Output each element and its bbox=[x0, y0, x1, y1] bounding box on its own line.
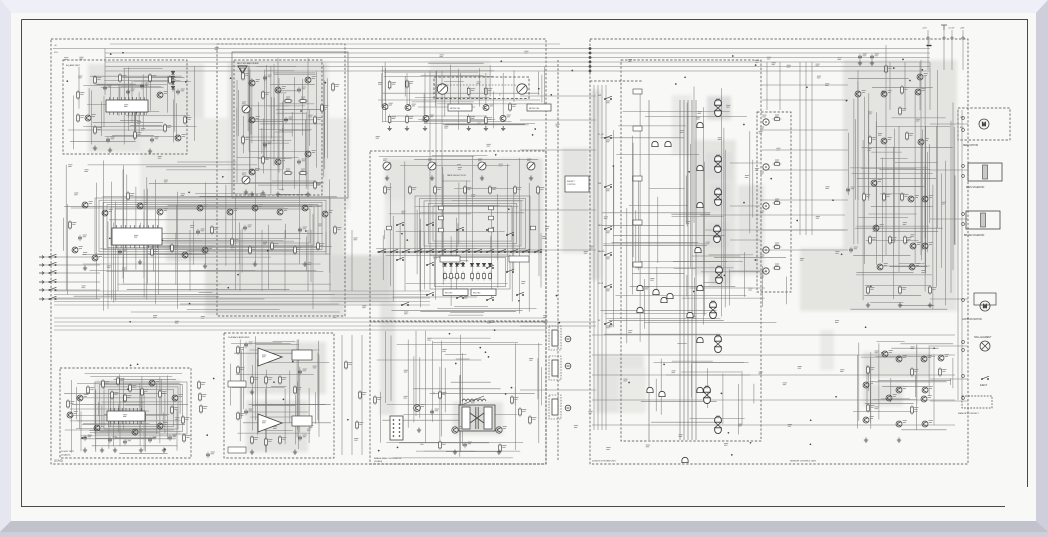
wire bbox=[390, 336, 392, 401]
svg-text:+13.5V: +13.5V bbox=[948, 28, 955, 30]
label R60 bbox=[387, 188, 391, 190]
wire bbox=[127, 289, 290, 291]
wire bbox=[871, 151, 902, 153]
wire bbox=[537, 358, 539, 399]
junction node bbox=[882, 91, 884, 93]
label potentiometer REC CAL 2 bbox=[242, 173, 246, 175]
wire bbox=[870, 352, 872, 429]
wire bbox=[380, 392, 382, 443]
junction node bbox=[806, 86, 808, 88]
resistor R47 bbox=[314, 180, 317, 190]
tape select matrix loop bbox=[415, 196, 530, 251]
wire bbox=[613, 167, 615, 229]
wire bbox=[442, 180, 471, 182]
wire bbox=[255, 403, 325, 405]
wire bbox=[101, 401, 145, 403]
wire bbox=[71, 207, 284, 209]
wire bbox=[95, 391, 97, 452]
flip-flop shading bbox=[707, 222, 729, 248]
label R85 bbox=[240, 414, 244, 416]
label TR816 bbox=[929, 387, 933, 389]
wire bbox=[104, 414, 169, 416]
power wire 2 bbox=[951, 30, 953, 70]
label TR825 bbox=[929, 421, 933, 423]
shaded panel bbox=[618, 368, 646, 412]
ground bbox=[430, 176, 434, 181]
label R22 bbox=[154, 250, 158, 252]
stray label bbox=[82, 286, 86, 288]
wire bbox=[264, 430, 292, 432]
capacitor C22 bbox=[196, 229, 200, 235]
wire bbox=[273, 98, 275, 130]
label TR39 bbox=[234, 209, 238, 211]
resistor R43 bbox=[262, 90, 265, 100]
wire bbox=[878, 380, 951, 382]
resistor R89 bbox=[294, 385, 297, 395]
oscillator indicator 4 bbox=[763, 268, 769, 274]
interconnect wire bbox=[762, 229, 848, 231]
junction node bbox=[273, 381, 275, 383]
flip-flop FF4 bbox=[716, 267, 723, 284]
wire bbox=[105, 135, 177, 137]
wire bbox=[102, 256, 271, 258]
wire bbox=[950, 378, 952, 385]
label mode switch EJ bbox=[606, 326, 610, 328]
transistor TR810 bbox=[910, 243, 916, 249]
flip-flop shading bbox=[709, 264, 731, 286]
wire bbox=[409, 82, 411, 105]
wire bbox=[314, 392, 316, 424]
svg-text:RECORD: RECORD bbox=[445, 293, 453, 295]
stray label bbox=[604, 217, 608, 219]
svg-text:EJ: EJ bbox=[598, 320, 600, 322]
terminal circle bbox=[962, 341, 965, 344]
label flip-flop FF7 bbox=[705, 386, 709, 388]
wire bbox=[193, 66, 195, 141]
wire bbox=[953, 127, 955, 245]
label TR820 bbox=[945, 355, 949, 357]
bus wire 5 bbox=[105, 66, 930, 68]
stray label bbox=[672, 371, 676, 373]
switch S9 bbox=[506, 269, 514, 272]
wire bbox=[459, 375, 461, 408]
resistor R1011 bbox=[867, 285, 870, 295]
frame rule right bbox=[1027, 20, 1029, 488]
wire bbox=[445, 354, 467, 356]
stray label bbox=[64, 58, 68, 60]
junction node bbox=[870, 286, 872, 288]
stray label bbox=[609, 325, 613, 327]
junction node bbox=[485, 351, 487, 353]
label R90 bbox=[442, 393, 446, 395]
input wire 2 bbox=[44, 264, 100, 266]
svg-text:-26V: -26V bbox=[960, 28, 965, 30]
capacitor C75 bbox=[206, 452, 210, 458]
resistor R26 bbox=[249, 245, 252, 255]
test pin bbox=[399, 427, 401, 429]
gate output wire bbox=[730, 239, 760, 241]
wire bbox=[141, 401, 143, 419]
wire bbox=[232, 387, 285, 389]
wire bbox=[256, 344, 299, 346]
wire bbox=[692, 362, 748, 364]
power rail wire bbox=[857, 70, 859, 200]
capacitor C92 bbox=[463, 442, 467, 448]
block boundary: record amp outer bbox=[217, 44, 345, 316]
playback matrix loop bbox=[103, 202, 322, 249]
label R25 bbox=[234, 240, 238, 242]
junction node bbox=[378, 450, 380, 452]
wire bbox=[145, 83, 147, 116]
potentiometer VR4 bbox=[527, 162, 535, 170]
label C103 bbox=[854, 247, 858, 249]
tape head H1 coil bbox=[552, 330, 558, 346]
capacitor C71 bbox=[108, 437, 112, 443]
wire bbox=[456, 358, 470, 360]
label R87 bbox=[268, 440, 272, 442]
junction node bbox=[841, 253, 843, 255]
stray label bbox=[798, 366, 802, 368]
wire bbox=[513, 192, 515, 271]
junction node bbox=[488, 356, 490, 358]
label R95 bbox=[442, 443, 446, 445]
wire bbox=[126, 175, 128, 272]
wire bbox=[412, 101, 474, 103]
value label bbox=[760, 127, 764, 129]
junction node bbox=[571, 70, 573, 72]
wire bbox=[168, 205, 323, 207]
transistor TR74 bbox=[172, 395, 178, 401]
wire bbox=[891, 347, 938, 349]
resistor R104 bbox=[906, 131, 909, 141]
logic vertical bus wire bbox=[695, 100, 697, 440]
wire bbox=[90, 376, 172, 378]
label C20 bbox=[83, 235, 87, 237]
wire bbox=[538, 72, 540, 96]
junction node bbox=[755, 64, 757, 66]
label R17 bbox=[187, 118, 191, 120]
wire bbox=[950, 121, 952, 293]
input wire 1 bbox=[44, 256, 100, 258]
label R24 bbox=[214, 228, 218, 230]
wire bbox=[167, 77, 169, 113]
logic gate G16 bbox=[667, 293, 673, 298]
label C70 bbox=[88, 435, 92, 437]
svg-text:TAPE SELECTION: TAPE SELECTION bbox=[447, 174, 466, 177]
wire bbox=[686, 103, 688, 227]
junction node bbox=[164, 448, 166, 450]
logic gate G6 bbox=[697, 285, 703, 290]
resistor R6b3 bbox=[462, 272, 465, 281]
wire bbox=[876, 340, 904, 342]
stray label bbox=[169, 246, 173, 248]
ground bbox=[93, 146, 97, 151]
resistor R1014 bbox=[867, 365, 870, 375]
stray label bbox=[215, 48, 219, 50]
resistor R15 bbox=[134, 130, 137, 140]
tape select matrix loop bbox=[429, 203, 517, 243]
resistor R88 bbox=[279, 435, 282, 445]
osc box 2 bbox=[292, 416, 312, 426]
meter dashed wire bbox=[434, 84, 517, 86]
label C10 bbox=[108, 85, 112, 87]
label TR63 BC237B bbox=[421, 405, 425, 407]
stray label bbox=[584, 251, 588, 253]
wire bbox=[850, 308, 947, 310]
wire bbox=[77, 383, 180, 385]
switch S13 bbox=[516, 292, 524, 295]
junction node bbox=[921, 69, 923, 71]
wire bbox=[437, 103, 532, 105]
wire bbox=[457, 223, 459, 247]
wire bbox=[385, 68, 387, 122]
resistor R100 bbox=[885, 64, 888, 74]
wire bbox=[112, 392, 114, 446]
test pin bbox=[393, 435, 395, 437]
power ground symbol bbox=[941, 25, 947, 30]
resistor R82 bbox=[251, 375, 254, 385]
label R107 bbox=[904, 195, 908, 197]
wire bbox=[147, 246, 332, 248]
wire bbox=[135, 187, 137, 270]
wire bbox=[419, 230, 421, 291]
wire bbox=[639, 92, 641, 342]
junction node bbox=[835, 396, 837, 398]
capstan motor box bbox=[974, 293, 996, 305]
wire bbox=[153, 225, 155, 272]
bus drop wire bbox=[904, 62, 906, 110]
resistor R111 bbox=[773, 163, 782, 166]
ground bbox=[897, 438, 901, 443]
wire bbox=[247, 67, 249, 132]
resistor R12b bbox=[356, 420, 359, 430]
logic vertical bus wire bbox=[683, 100, 685, 440]
junction node bbox=[518, 300, 520, 302]
wire bbox=[71, 380, 73, 453]
wire bbox=[672, 216, 724, 218]
sensor interconnect wire bbox=[592, 374, 955, 376]
VU meter left bbox=[437, 84, 447, 94]
stray label bbox=[489, 264, 493, 266]
transistor TR80 bbox=[917, 74, 923, 80]
wire bbox=[257, 102, 259, 170]
stray label bbox=[903, 223, 907, 225]
label C81 bbox=[249, 409, 253, 411]
transistor TR33 bbox=[157, 209, 163, 215]
wire bbox=[867, 373, 869, 391]
terminal circle bbox=[962, 213, 965, 216]
wire bbox=[82, 424, 185, 426]
wire bbox=[451, 260, 469, 262]
wire bbox=[499, 94, 501, 96]
wire bbox=[540, 367, 542, 405]
wire bbox=[753, 384, 755, 404]
ground bbox=[480, 176, 484, 181]
resistor R107 bbox=[901, 192, 904, 202]
label TR822 bbox=[928, 396, 932, 398]
wire bbox=[892, 148, 894, 256]
test pin bbox=[399, 431, 401, 433]
wire bbox=[128, 77, 130, 131]
dolby marker inner bbox=[240, 68, 245, 73]
switch S5 bbox=[396, 257, 404, 260]
label R72 bbox=[120, 379, 124, 381]
wire bbox=[123, 165, 125, 283]
actuator wire bbox=[930, 169, 968, 171]
label TR51 bbox=[490, 104, 494, 106]
junction node bbox=[283, 399, 285, 401]
resistor R52 bbox=[467, 86, 470, 96]
terminal circle bbox=[962, 397, 965, 400]
label TR814 bbox=[870, 382, 874, 384]
wire bbox=[873, 399, 917, 401]
wire bbox=[187, 250, 296, 252]
wire bbox=[741, 371, 743, 425]
label R65 bbox=[517, 188, 521, 190]
label R11 bbox=[122, 76, 126, 78]
resistor R6b0 bbox=[444, 272, 447, 281]
contact box 4 bbox=[633, 262, 642, 267]
wire bbox=[122, 378, 124, 429]
wire bbox=[436, 70, 438, 98]
ground bbox=[928, 303, 932, 308]
wire bbox=[231, 209, 233, 242]
interconnect wire bbox=[520, 321, 596, 323]
wire bbox=[857, 81, 859, 244]
op-amp U5 bbox=[258, 414, 282, 432]
wire bbox=[159, 377, 161, 444]
capacitor C72 bbox=[123, 439, 127, 445]
stray label bbox=[759, 372, 763, 374]
interconnect wire bbox=[762, 99, 848, 101]
wire bbox=[694, 278, 696, 317]
svg-text:REC: REC bbox=[598, 225, 603, 227]
wire bbox=[403, 414, 517, 416]
wire bbox=[382, 419, 480, 421]
wire bbox=[77, 420, 167, 422]
wire bbox=[901, 343, 954, 345]
resistor R1015 bbox=[911, 367, 914, 377]
logic gate G9 bbox=[647, 387, 653, 392]
stray label bbox=[776, 148, 780, 150]
transistor TR38 bbox=[202, 247, 208, 253]
wire bbox=[315, 71, 317, 167]
label R89 bbox=[297, 388, 301, 390]
wire bbox=[78, 67, 80, 109]
interconnect wire bbox=[520, 95, 596, 97]
wire bbox=[136, 196, 252, 198]
label TR313 bbox=[329, 211, 333, 213]
resistor R712 bbox=[199, 392, 202, 402]
label R10 bbox=[97, 78, 101, 80]
wire bbox=[317, 353, 319, 421]
junction node bbox=[770, 178, 772, 180]
label TR71 bbox=[101, 425, 105, 427]
block boundary: record amplifier bbox=[234, 60, 322, 195]
junction node bbox=[109, 237, 111, 239]
wire bbox=[761, 266, 763, 307]
label R112 bbox=[775, 199, 779, 201]
label C15 bbox=[131, 89, 135, 91]
label R45 bbox=[265, 158, 269, 160]
stray label bbox=[78, 76, 82, 78]
transistor TR85 bbox=[918, 139, 924, 145]
wire bbox=[68, 129, 163, 131]
resistor R58 bbox=[509, 102, 512, 112]
wire bbox=[249, 75, 251, 175]
block boundary dashed divider bbox=[557, 60, 559, 460]
wire bbox=[312, 214, 314, 309]
playback level box bbox=[228, 381, 246, 387]
playback matrix loop bbox=[95, 198, 330, 254]
wire bbox=[518, 158, 520, 314]
capacitor C10 bbox=[103, 85, 107, 91]
wire bbox=[101, 86, 164, 88]
wire bbox=[271, 386, 286, 388]
head connector L bbox=[565, 336, 571, 342]
stray label bbox=[628, 331, 632, 333]
input contact 6 bbox=[49, 296, 57, 299]
svg-text:CONTROL: CONTROL bbox=[567, 184, 576, 186]
wire bbox=[280, 103, 315, 105]
label flip-flop FF3 bbox=[715, 225, 719, 227]
label C82 bbox=[303, 369, 307, 371]
resistor R44 bbox=[242, 135, 245, 145]
resistor R40 bbox=[332, 82, 335, 92]
label R75 bbox=[162, 392, 166, 394]
wire bbox=[857, 186, 925, 188]
wire bbox=[282, 101, 284, 132]
logic gate G7 bbox=[687, 312, 693, 317]
stray label bbox=[404, 396, 408, 398]
power rail wire bbox=[885, 45, 887, 255]
logic gate G12 bbox=[682, 457, 688, 462]
dolby matrix loop bbox=[109, 389, 174, 426]
diode D65 bbox=[476, 263, 479, 266]
wire bbox=[872, 381, 947, 383]
junction node bbox=[230, 77, 232, 79]
label R101 bbox=[904, 88, 908, 90]
wire bbox=[880, 193, 905, 195]
stray label bbox=[318, 224, 322, 226]
logic gate G15 bbox=[653, 289, 659, 294]
label R20 bbox=[72, 223, 76, 225]
wire bbox=[858, 216, 908, 218]
wire bbox=[137, 240, 202, 242]
stray label bbox=[916, 119, 920, 121]
wire bbox=[420, 219, 422, 308]
label R106 bbox=[886, 195, 890, 197]
erase head connector bbox=[565, 405, 571, 411]
wire bbox=[437, 308, 536, 310]
label R88 bbox=[282, 438, 286, 440]
resistor R92 bbox=[374, 395, 377, 405]
stray label bbox=[477, 122, 481, 124]
wire bbox=[714, 256, 786, 258]
wire bbox=[90, 270, 317, 272]
shaded panel bbox=[385, 200, 510, 255]
resistor R6b6 bbox=[483, 272, 486, 281]
wire bbox=[150, 81, 152, 111]
ground bbox=[497, 450, 501, 455]
shaded panel bbox=[140, 118, 350, 210]
wire bbox=[254, 336, 256, 420]
label R16 bbox=[167, 126, 171, 128]
label C44 bbox=[268, 142, 272, 144]
wire bbox=[296, 340, 298, 438]
wire bbox=[861, 167, 916, 169]
wire bbox=[113, 298, 265, 300]
